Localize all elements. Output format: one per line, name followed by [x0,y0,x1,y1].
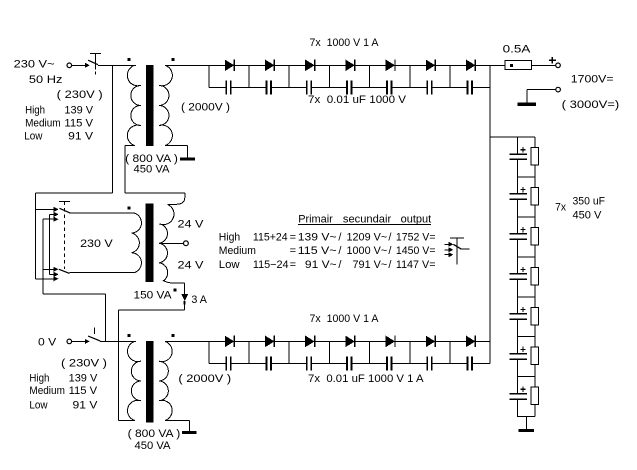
svg-text:91 V: 91 V [68,130,94,142]
svg-text:High: High [29,373,49,385]
svg-text:Low: Low [24,130,42,142]
node junction J8 [489,65,491,87]
diode D6 [410,60,450,72]
svg-text:1147 V=: 1147 V= [396,259,436,271]
resistor R2 bleeder [531,177,539,217]
svg-text:Medium: Medium [25,117,61,129]
transformer T1 polarity dots [128,58,175,61]
wire - terminal to ground [527,90,556,103]
wire rectifier main bus [165,340,209,342]
label (230V) tap table bottom [29,357,107,411]
wire T1 secondary bottom to ground [165,146,187,158]
svg-text:7x: 7x [555,201,566,213]
diode D13 [410,336,450,348]
svg-text:115+24: 115+24 [253,231,288,243]
svg-text:High: High [219,231,240,243]
capacitor C19 350uF electrolytic [510,297,527,337]
transformer T1 secondary winding 2000V [159,65,172,145]
svg-text:1450 V=: 1450 V= [396,245,436,257]
transformer T1 primary winding 230V [127,65,140,145]
svg-text:450 V: 450 V [573,209,603,221]
resistor R4 bleeder [531,257,539,297]
capacitor C8 [209,356,249,370]
wire T3 secondary bottom to ground [165,421,190,432]
svg-text:7x 0.01 uF 1000 V 1 A: 7x 0.01 uF 1000 V 1 A [308,373,424,385]
svg-text:1752 V=: 1752 V= [396,231,436,243]
wire fuse F2 to T3 primary bottom [118,305,184,421]
capacitor C11 [329,356,369,370]
svg-text:1209 V~: 1209 V~ [347,231,388,243]
diode D2 [249,60,289,72]
wire selector to 0V line [43,294,106,341]
fuse F1 0.5A [505,60,532,69]
capacitor C15 350uF electrolytic [510,137,527,177]
node junction J8 [208,341,210,363]
label (800 VA) 450 VA bottom [128,428,181,452]
selector S2b wiper [59,269,70,273]
svg-text:7x 1000 V 1 A: 7x 1000 V 1 A [310,313,380,325]
svg-text:( 2000V ): ( 2000V ) [178,373,231,385]
label 7x 1000 V 1 A bottom [310,313,380,325]
svg-text:1000 V~: 1000 V~ [347,245,388,257]
svg-text:/: / [338,259,342,271]
svg-text:=: = [290,245,296,257]
selector S2b contact 2 [50,272,59,277]
transformer T2 polarity dot secondary [174,289,177,292]
label 3 A [191,294,207,306]
label table row High [219,231,436,243]
svg-text:3 A: 3 A [191,294,207,306]
capacitor C9 [249,356,289,370]
selector S2a wiper [60,208,71,213]
svg-text:7x 0.01 uF 1000 V: 7x 0.01 uF 1000 V [308,94,407,106]
capacitor C20 350uF electrolytic [510,337,527,377]
transformer T2 primary winding 230V [70,213,142,272]
node junction J6 [409,65,411,87]
node junction J7 [449,65,451,87]
switch S3 mains neutral [88,327,100,341]
resistor R6 bleeder [531,337,539,377]
svg-text:115 V: 115 V [69,385,98,397]
selector S2b contact 3 [36,276,59,281]
transformer T1 core [146,65,153,146]
selector S2b contact 1 [43,267,59,272]
node stack junction 4 [518,296,535,298]
wire switch S1 to transformer T1 primary [98,64,136,66]
wire 0V to switch S3 [72,339,90,344]
svg-text:0.5A: 0.5A [503,44,531,56]
capacitor C6 [410,81,450,95]
transformer T3 core [146,341,153,422]
svg-text:Medium: Medium [219,245,256,257]
capacitor C7 [450,81,490,95]
label 150 VA [134,289,173,301]
svg-text:450 VA: 450 VA [135,440,172,452]
wire selector outer rail [35,193,37,279]
capacitor C3 [289,81,329,95]
diode D1 [209,60,249,72]
label 24 V lower [178,260,205,272]
node stack junction 6 [518,376,535,378]
diode D9 [249,336,289,348]
switch S1 mains [88,54,101,75]
label table row Low [219,259,436,271]
svg-text:Primair: Primair [298,214,333,226]
node stack junction 3 [518,256,535,258]
selector switch legend symbol [444,238,469,264]
label (2000V) top [181,102,230,114]
label 0.5A [503,44,531,56]
svg-text:350 uF: 350 uF [573,196,606,208]
label 0 V input [38,336,57,348]
svg-text:24 V: 24 V [178,260,205,272]
capacitor C14 [450,356,490,370]
node junction J14 [449,341,451,363]
svg-text:/: / [388,231,392,243]
label 24 V upper [178,219,205,231]
node stack junction 1 [518,176,535,178]
svg-text:( 2000V ): ( 2000V ) [181,102,230,114]
svg-text:91 V~: 91 V~ [305,259,337,271]
svg-text:( 230V ): ( 230V ) [57,89,103,101]
ground output negative [518,102,537,105]
fuse F2 3A [181,294,188,305]
node stack junction 5 [518,336,535,338]
resistor R7 bleeder [531,377,539,417]
wire HV rail vertical [489,65,491,341]
svg-text:91 V: 91 V [73,400,99,412]
capacitor C21 350uF electrolytic [510,377,527,417]
terminal 230V input [67,63,72,68]
wire HV rail to stack [490,136,535,138]
ground T3 secondary [182,431,197,434]
ground T1 secondary [180,158,195,161]
label table row Medium [219,245,436,257]
wire chain to fuse F1 [490,64,505,66]
capacitor C16 350uF electrolytic [510,177,527,217]
capacitor C17 350uF electrolytic [510,217,527,257]
selector S2 actuator link [59,201,70,269]
svg-text:Low: Low [29,400,47,412]
capacitor C10 [289,356,329,370]
label 7x 0.01 uF 1000 V top [308,94,407,106]
label (230V) tap table top [24,89,103,142]
node junction J3 [288,65,290,87]
diode D12 [370,336,410,348]
terminal + output [549,57,560,68]
wire stack bottom [517,417,535,429]
svg-text:=: = [290,259,296,271]
capacitor C4 [329,81,369,95]
transformer T3 secondary winding 2000V [159,341,172,420]
svg-text:secundair: secundair [343,214,392,226]
diode D4 [329,60,369,72]
svg-text:139 V: 139 V [64,104,93,116]
diode D7 [450,60,490,72]
svg-text:High: High [25,104,45,116]
capacitor C5 [370,81,410,95]
diode D8 [209,336,249,348]
node junction J15 [489,341,491,363]
svg-text:230 V~: 230 V~ [14,59,55,71]
diode D14 [450,336,490,348]
transformer T3 polarity dots [128,334,175,337]
svg-text:50 Hz: 50 Hz [29,74,63,86]
svg-text:( 230V ): ( 230V ) [61,357,107,369]
wire rectifier main bus [165,64,209,66]
svg-text:450 VA: 450 VA [134,164,171,176]
svg-text:24 V: 24 V [178,219,205,231]
transformer T3 primary winding 230V [127,341,140,420]
label 230 V~ 50 Hz mains input [14,59,63,86]
node junction J2 [248,65,250,87]
wire T2 secondary to fuse F2 [184,283,186,294]
svg-text:115 V~: 115 V~ [298,245,337,257]
terminal 0V input [67,339,72,344]
selector S2a contact 2 [50,212,59,275]
svg-text:( 3000V=): ( 3000V=) [562,99,620,111]
wire switch S3 to T3 primary [100,340,136,342]
node junction J12 [369,341,371,363]
svg-text:139 V: 139 V [69,373,98,385]
capacitor C1 [209,81,249,95]
capacitor C13 [410,356,450,370]
center tap terminal [160,241,188,246]
label 7x 350uF 450V [555,196,605,222]
selector S2a contact 3 [43,217,59,295]
transformer T2 polarity dot primary [128,207,131,210]
wire input to switch S1 [72,63,90,68]
diode D10 [289,336,329,348]
label 7x 0.01 uF 1000 V 1 A bottom [308,373,424,385]
label 1700V= [571,74,614,86]
svg-text:/: / [338,245,342,257]
transformer T2 secondary winding 24V+24V [159,193,185,283]
wire node A to selector rail [36,192,113,194]
label 7x 1000 V 1 A top [310,37,380,49]
svg-text:115 V: 115 V [64,117,93,129]
svg-text:230 V: 230 V [80,238,113,250]
svg-text:Low: Low [219,259,240,271]
label table header [298,214,431,226]
transformer T2 core [146,203,154,282]
svg-text:Medium: Medium [29,385,65,397]
node junction J11 [328,341,330,363]
wire T1 primary bottom to variac secondary [125,146,185,193]
capacitor C18 350uF electrolytic [510,257,527,297]
svg-text:115−24: 115−24 [253,259,289,271]
capacitor C2 [249,81,289,95]
label (800 VA) 450 VA top [125,153,178,176]
svg-text:0 V: 0 V [38,336,57,348]
svg-text:791 V~: 791 V~ [353,259,388,271]
svg-text:1700V=: 1700V= [571,74,614,86]
svg-text:/: / [388,245,392,257]
diode D11 [329,336,369,348]
node stack junction 2 [518,216,535,218]
selector S2a contact 1 [36,207,59,212]
node junction J10 [288,341,290,363]
terminal - output [556,87,561,92]
node junction J9 [248,341,250,363]
svg-text:139 V~: 139 V~ [298,231,337,243]
svg-text:150 VA: 150 VA [134,289,173,301]
node junction J4 [328,65,330,87]
node junction J1 [208,65,210,87]
node junction J13 [409,341,411,363]
resistor R3 bleeder [531,217,539,257]
label 230 V variac [80,238,113,250]
label (3000V=) [562,99,620,111]
svg-text:/: / [338,231,342,243]
svg-text:output: output [401,214,432,226]
svg-text:=: = [290,231,296,243]
capacitor C12 [370,356,410,370]
diode D5 [370,60,410,72]
svg-text:/: / [388,259,392,271]
label (2000V) bottom [178,373,231,385]
resistor R5 bleeder [531,297,539,337]
svg-text:( 800 VA ): ( 800 VA ) [128,428,181,440]
resistor R1 bleeder [531,137,539,177]
node A junction [112,65,114,193]
ground capacitor stack [519,429,534,432]
diode D3 [289,60,329,72]
wire fuse to + terminal [532,64,556,66]
svg-text:7x 1000 V 1 A: 7x 1000 V 1 A [310,37,380,49]
node junction J5 [369,65,371,87]
